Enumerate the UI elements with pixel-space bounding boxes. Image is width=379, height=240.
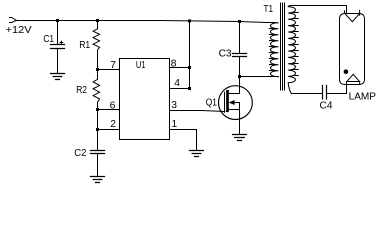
svg-text:LAMP: LAMP (349, 92, 377, 103)
wire pin6 to pin2 (97, 110, 99, 130)
svg-text:R2: R2 (76, 85, 87, 96)
svg-text:4: 4 (174, 78, 180, 89)
transformer T1 secondary winding (288, 6, 298, 94)
label R1 (79, 40, 90, 51)
svg-text:2: 2 (110, 119, 116, 130)
wire pin 6 (98, 109, 120, 111)
resistor R1 (93, 21, 100, 70)
svg-text:1: 1 (172, 119, 178, 130)
wire top +12V rail (16, 21, 273, 23)
node junction rail/pin8-4 branch (188, 19, 191, 22)
transistor Q1 MOSFET (219, 86, 253, 134)
resistor R2 (93, 70, 100, 110)
label C1 (43, 34, 54, 45)
svg-text:+12V: +12V (6, 25, 32, 36)
label C3 (219, 48, 232, 59)
pin number 8 (171, 58, 177, 69)
node junction rail/C1 (56, 19, 59, 22)
svg-text:T1: T1 (264, 4, 274, 15)
wire T1 primary bottom (240, 76, 279, 78)
label C4 (320, 101, 333, 112)
pin number 7 (110, 60, 116, 71)
label U1 (136, 60, 146, 71)
pin number 6 (110, 100, 116, 111)
label LAMP (349, 92, 377, 103)
svg-text:3: 3 (171, 100, 177, 111)
wire pin 7 (98, 69, 120, 71)
wire C2 top lead (97, 130, 99, 151)
pin number 3 (171, 100, 177, 111)
node junction pin2/C2 (96, 128, 99, 131)
pin number 1 (172, 119, 178, 130)
label C2 (74, 148, 86, 159)
node junction pin4 end (188, 87, 191, 90)
node junction R2/pin6 (96, 108, 99, 111)
transformer T1 primary winding (269, 23, 278, 77)
lamp bottom electrode (347, 74, 360, 84)
port +12V input connector (10, 18, 17, 23)
wire pin 1 (170, 130, 197, 151)
wire pin 2 (98, 129, 120, 131)
wire C3 to Q1 drain (229, 57, 240, 94)
wire pin 8 (170, 67, 190, 69)
wire C4 to lamp bottom (327, 93, 347, 95)
wire C3 top lead (239, 22, 241, 54)
transformer T1 core (281, 3, 285, 90)
svg-text:7: 7 (110, 60, 116, 71)
svg-text:U1: U1 (136, 60, 146, 71)
node junction pin8/rail (188, 66, 191, 69)
node junction rail/C3 (238, 20, 241, 23)
pin number 2 (110, 119, 116, 130)
node junction R1/R2/pin7 (96, 68, 99, 71)
node junction C3/T1 primary bottom (238, 75, 241, 78)
wire C1 top lead (57, 21, 59, 45)
label Q1 (206, 97, 217, 108)
wire lamp bottom stem (346, 82, 348, 94)
capacitor C3 (233, 54, 247, 57)
IC U1 555 timer box (120, 59, 170, 140)
capacitor C1 polarized (51, 41, 65, 48)
label R2 (76, 85, 87, 96)
ground below pin 1 (190, 151, 204, 157)
ground below C2 (91, 177, 105, 183)
capacitor C2 (91, 151, 105, 154)
wire pin 3 to Q1 gate (170, 111, 226, 112)
svg-text:R1: R1 (79, 40, 90, 51)
wire secondary top to lamp (291, 6, 347, 14)
svg-text:C4: C4 (320, 101, 333, 112)
wire pin8-4 vertical branch (189, 21, 191, 89)
capacitor C4 (323, 86, 327, 100)
wire secondary bottom to C4 (291, 93, 322, 95)
wire C2 bottom lead (97, 154, 99, 177)
svg-text:Q1: Q1 (206, 97, 217, 108)
node junction rail/R1 (96, 19, 99, 22)
svg-text:C2: C2 (74, 148, 86, 159)
svg-text:C3: C3 (219, 48, 232, 59)
svg-text:6: 6 (110, 100, 116, 111)
lamp top electrode (345, 10, 360, 21)
label T1 (264, 4, 274, 15)
lamp tube outline (340, 14, 365, 85)
ground below C1 (51, 74, 65, 80)
lamp heated filament dot (344, 69, 349, 74)
wire C1 bottom lead (57, 49, 59, 74)
pin number 4 (174, 78, 180, 89)
ground below Q1 source (233, 135, 247, 141)
wire pin 4 (170, 88, 190, 90)
label +12V (6, 25, 32, 36)
svg-text:C1: C1 (43, 34, 54, 45)
